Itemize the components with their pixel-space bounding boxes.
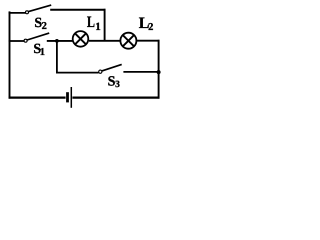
node junction dot at right vertical <box>157 70 161 74</box>
label L2 <box>139 15 154 33</box>
wire S3 row left segment <box>56 72 99 74</box>
lamp L1 <box>73 31 89 47</box>
battery negative plate (short thick) <box>66 92 69 102</box>
wire right vertical <box>158 40 160 99</box>
switch S3 blade <box>102 64 122 71</box>
battery positive plate (long thin) <box>70 87 72 108</box>
label S3 <box>108 74 121 90</box>
label L1 <box>87 14 101 33</box>
wire middle row segment c <box>89 40 120 42</box>
switch S2 blade <box>29 5 52 12</box>
wire top-right vertical drop <box>104 9 106 42</box>
wire bottom left segment <box>9 96 66 98</box>
svg-text:2: 2 <box>42 21 47 32</box>
svg-text:2: 2 <box>148 22 153 33</box>
lamp L2 <box>120 33 136 49</box>
wire left vertical <box>9 11 11 98</box>
switch S3 pivot <box>99 70 102 73</box>
wire top row left segment <box>9 12 26 14</box>
svg-text:3: 3 <box>115 80 120 90</box>
svg-text:1: 1 <box>40 47 45 58</box>
wire S3 row right segment <box>123 71 159 73</box>
label S1 <box>33 42 45 58</box>
switch S2 pivot <box>26 11 29 14</box>
wire S3 branch vertical <box>56 41 58 73</box>
svg-text:L: L <box>87 14 95 31</box>
wire top row right segment <box>50 9 105 11</box>
wire bottom right segment <box>72 96 159 98</box>
wire middle row segment d <box>137 40 160 42</box>
svg-text:1: 1 <box>95 21 101 33</box>
switch S1 pivot <box>24 39 27 42</box>
node junction dot at S3 branch tap <box>55 39 59 43</box>
wire middle row segment b <box>47 40 73 42</box>
label S2 <box>34 16 46 32</box>
switch S1 blade <box>27 33 49 40</box>
wire middle row segment a <box>9 40 25 42</box>
